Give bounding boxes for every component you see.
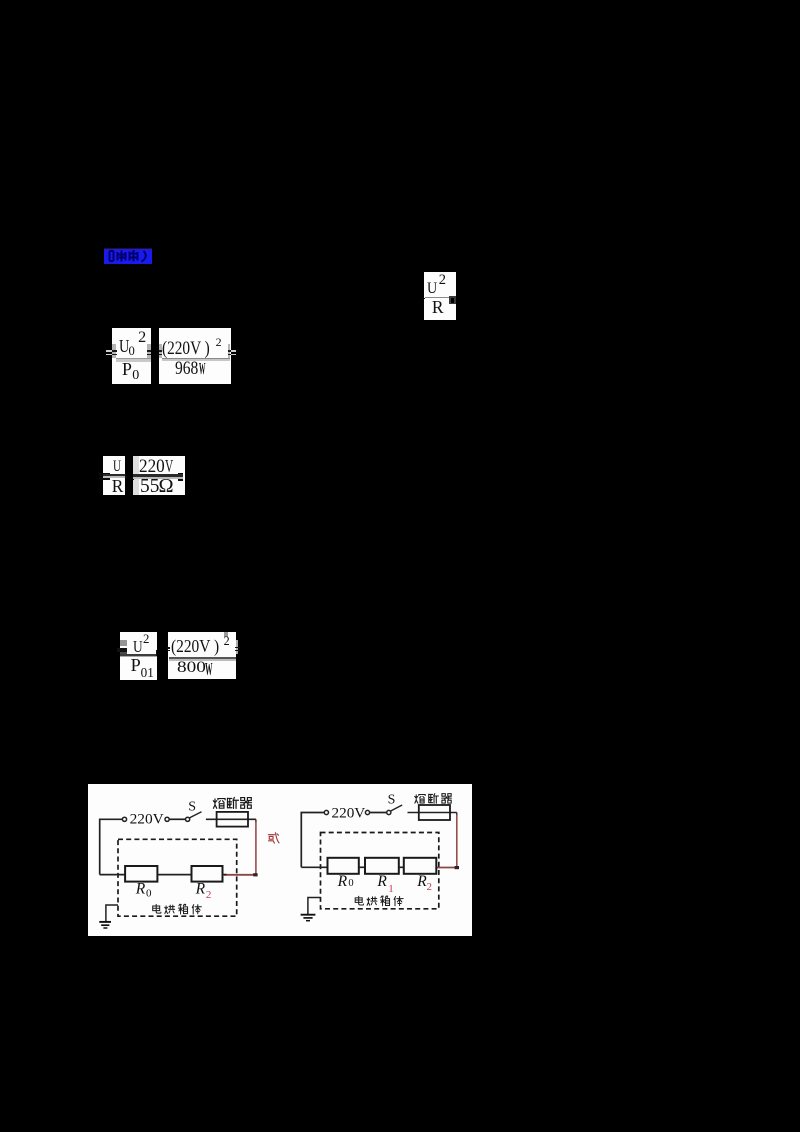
svg-text:S: S	[388, 793, 396, 808]
wire R2 to node	[223, 874, 227, 876]
box2 left grey col	[133, 456, 139, 495]
wire between resistors	[157, 874, 191, 876]
box1 numerator U 0 2	[119, 337, 129, 355]
blue tag glyphs	[104, 248, 152, 264]
wire to switch	[170, 818, 185, 820]
handle square	[449, 296, 456, 304]
svg-text:2: 2	[206, 889, 212, 901]
box2 denominator 968 W	[175, 360, 198, 379]
eq ticks between	[156, 650, 158, 656]
ground lead wire	[308, 898, 321, 915]
box2 numerator 220 V	[139, 458, 165, 477]
terminal circle right	[165, 817, 169, 821]
wire	[399, 866, 404, 868]
eq ticks between boxes	[125, 474, 127, 478]
svg-text:R: R	[376, 873, 387, 890]
node (wire junction)	[455, 866, 459, 869]
box2 denominator 800 W	[177, 660, 206, 676]
box1	[120, 632, 157, 680]
eq bars right	[235, 647, 240, 649]
box1 numerator U	[113, 459, 121, 475]
svg-text:0: 0	[348, 878, 353, 889]
sup 2	[439, 273, 446, 288]
box2	[168, 632, 236, 679]
eq1 light bars on black	[106, 350, 113, 352]
wire bottom left	[100, 874, 126, 876]
wire bottom red to node	[224, 874, 256, 876]
label dianhongxiangti (oven body)	[153, 904, 161, 913]
wire right vertical (red)	[255, 819, 257, 822]
resistor R1	[365, 858, 399, 874]
svg-text:0: 0	[146, 888, 152, 900]
U	[427, 280, 437, 296]
blue highlight tag	[104, 248, 152, 264]
svg-text:2: 2	[427, 881, 433, 893]
box1 fraction line	[120, 654, 157, 656]
svg-text:1: 1	[388, 883, 394, 895]
box1 denominator P 0	[122, 361, 132, 379]
eq1 grey patch box1 left edge	[112, 344, 116, 358]
label huo (or) red	[268, 833, 279, 844]
ground symbol	[301, 914, 316, 916]
node (wire junction)	[253, 873, 257, 876]
oven body dashed box	[321, 833, 439, 909]
eq bars left box1	[117, 648, 127, 650]
fuse (left circuit)	[217, 812, 248, 827]
svg-text:220V: 220V	[332, 806, 366, 822]
formula U^2/R white box	[424, 272, 456, 320]
wire switch to fuse	[206, 818, 256, 820]
svg-text:R: R	[337, 873, 348, 890]
box2	[133, 456, 185, 495]
grey square box2 top-right	[224, 632, 229, 637]
svg-text:R: R	[195, 881, 206, 898]
box1 fraction line	[103, 474, 125, 476]
svg-text:S: S	[188, 800, 196, 815]
ground lead wire	[106, 905, 118, 921]
box2 numerator (220V )^2	[171, 638, 219, 656]
box2 denominator 55 ohm	[140, 477, 159, 497]
label rongduanqi (fuse)	[415, 795, 425, 804]
box2 numerator (220V )^2	[162, 339, 210, 358]
panel background	[88, 784, 472, 936]
box1 denominator R	[112, 478, 124, 495]
switch S blade	[391, 805, 402, 811]
oven body dashed box	[118, 839, 237, 916]
eq black block right	[178, 473, 184, 476]
wire switch to fuse	[408, 812, 457, 814]
fraction line	[425, 297, 449, 298]
wire bottom left	[301, 866, 328, 868]
resistor R2	[404, 858, 437, 874]
left tick	[423, 298, 425, 299]
label oven body	[355, 896, 363, 905]
box1 numerator U^2	[133, 639, 143, 656]
switch S pivot circle	[186, 817, 190, 821]
svg-text:R: R	[135, 881, 146, 898]
eq2 grey patch box1 right edge	[147, 344, 151, 358]
ground symbol	[99, 921, 111, 923]
eq2 grey patch box2 left edge	[159, 344, 162, 358]
eq3 grey patch box2 right edge + light bars	[228, 344, 231, 358]
box2 fraction line	[162, 358, 230, 359]
switch S blade	[190, 812, 202, 818]
box1	[112, 328, 151, 384]
box1	[103, 456, 125, 495]
resistor R0	[125, 866, 157, 882]
R	[432, 299, 444, 317]
wire right vertical red	[456, 813, 458, 817]
wire left vertical + top	[100, 819, 123, 874]
wire	[359, 866, 365, 868]
terminal circle left	[122, 817, 126, 821]
terminal circle right	[365, 810, 369, 814]
grey col box2 right	[236, 640, 238, 654]
resistor R0	[328, 858, 359, 874]
box1 fraction line	[116, 358, 151, 359]
wire left vertical + top	[301, 813, 324, 868]
grey square box1 top-left	[120, 640, 127, 646]
wire to switch	[370, 812, 387, 814]
wire bottom red	[437, 867, 457, 869]
svg-text:220V: 220V	[130, 812, 165, 828]
box1 denominator P 01	[131, 656, 141, 674]
eq black block left	[99, 473, 110, 476]
switch S pivot circle	[387, 810, 391, 814]
terminal circle left	[324, 810, 328, 814]
label rongduanqi (fuse)	[213, 799, 225, 809]
resistor R2	[192, 866, 223, 882]
box2 fraction line	[133, 474, 183, 477]
box2	[159, 328, 231, 384]
fuse (right circuit)	[419, 805, 450, 820]
box2 fraction line	[169, 657, 236, 659]
